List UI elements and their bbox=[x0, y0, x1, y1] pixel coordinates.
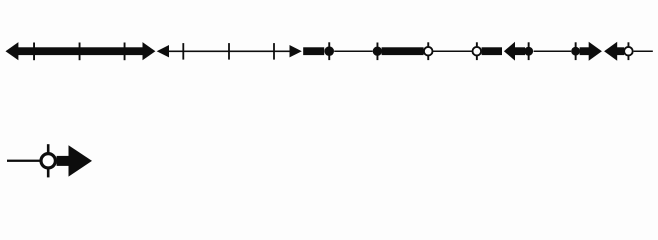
tick mark 2 on thick arrow bbox=[79, 43, 81, 61]
left arrow with open circle at tail bbox=[604, 42, 633, 61]
thick double-headed arrow (restriction map segment 1) bbox=[6, 42, 156, 60]
tick mark 1 on thick arrow bbox=[33, 43, 35, 61]
tick mark 3 on thick arrow bbox=[124, 43, 126, 61]
thin line to right end bbox=[634, 51, 653, 53]
filled ball with right arrow bbox=[571, 42, 602, 61]
open circle with thick bar bbox=[473, 42, 503, 60]
thin connector line bbox=[334, 51, 373, 53]
thin connector line bbox=[534, 51, 572, 53]
thick bar with filled ball at right end bbox=[303, 42, 334, 60]
left arrow with filled ball at tail bbox=[504, 42, 533, 61]
thin connector line bbox=[433, 51, 472, 53]
tick mark 2 on thin arrow bbox=[228, 43, 230, 60]
legend: line, open circle, thick right arrow bbox=[7, 144, 92, 177]
tick mark 1 on thin arrow bbox=[182, 43, 184, 60]
thin double-headed arrow (map segment 2) bbox=[157, 45, 302, 57]
tick mark 3 on thin arrow bbox=[273, 43, 275, 60]
filled ball, thick bar, open circle element bbox=[373, 42, 433, 60]
